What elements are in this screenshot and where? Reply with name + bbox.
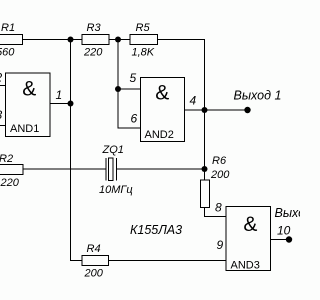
svg-text:R3: R3 [87,22,102,34]
wire R1 to R3 (node B top) [23,39,83,41]
svg-text:6: 6 [131,112,138,126]
svg-text:10: 10 [277,224,291,238]
svg-text:Выход 1: Выход 1 [234,89,282,103]
crystal ZQ1 left plate [105,158,107,181]
wire R6 bottom to AND3 pin 8 [205,208,227,217]
svg-text:R5: R5 [136,22,151,34]
wire R3 to R5 (node C top) [109,39,130,41]
node junction AND1 output [68,101,74,107]
terminal Vyhod 2 [286,236,292,242]
node junction AND2 pin5 [115,86,121,92]
svg-text:220: 220 [0,177,20,189]
wire R5 right to AND2 output node [158,40,205,111]
op-amp gate AND2 box (NAND element DD1.2) [141,78,185,142]
terminal Vyhod 1 [244,107,250,113]
svg-text:200: 200 [210,169,230,181]
svg-text:R6: R6 [212,155,227,167]
node junction crystal-R6 [202,166,208,172]
svg-text:2: 2 [0,71,3,85]
node junction AND2 output [202,107,208,113]
svg-text:Выход 2: Выход 2 [275,206,301,220]
svg-text:К155ЛА3: К155ЛА3 [130,223,182,237]
svg-text:ZQ1: ZQ1 [102,144,124,156]
node junction R1-R3 [68,37,74,43]
svg-text:3: 3 [0,108,3,122]
svg-text:200: 200 [84,268,104,280]
svg-text:9: 9 [217,238,224,252]
op-amp gate AND3 box (NAND element DD1.3) [226,207,271,271]
wire crystal ZQ1 right to R6 node [117,168,205,170]
svg-text:&: & [22,78,36,101]
resistor R4 body [82,256,109,266]
node junction R3-R5 [115,37,121,43]
svg-text:&: & [155,82,169,105]
svg-text:AND2: AND2 [145,129,174,141]
resistor R6 body (vertical) [201,180,210,208]
svg-text:1: 1 [56,88,63,102]
resistor R3 body [82,35,109,45]
wire AND1 pin 3 stub [0,125,6,127]
wire AND2 output pin 4 to Vyhod1 terminal [185,109,248,111]
svg-text:R1: R1 [1,22,15,34]
svg-text:10МГц: 10МГц [99,184,133,196]
crystal ZQ1 body [109,158,114,181]
resistor R2 body [0,165,23,175]
op-amp gate AND1 box (NAND element DD1.1) [6,73,51,137]
svg-text:4: 4 [190,94,197,108]
wire R2 right to crystal ZQ1 left [23,168,106,170]
svg-text:AND3: AND3 [231,260,260,272]
svg-text:8: 8 [215,201,222,215]
resistor R1 body [0,35,23,45]
svg-text:AND1: AND1 [10,123,39,135]
wire R4 right to AND3 pin 9 [109,260,227,262]
wire node C vertical down to AND2 pin 6 [118,40,141,129]
wire node B vertical (x=70.5) down to R4 [71,40,83,261]
wire AND2 output node down to R6 top [204,110,206,180]
svg-text:&: & [243,213,257,236]
svg-text:1,8K: 1,8K [132,47,155,59]
wire node C vertical to AND2 pin 5 [118,88,141,90]
svg-text:220: 220 [83,47,103,59]
svg-text:560: 560 [0,47,15,59]
crystal ZQ1 right plate [116,158,118,181]
svg-text:R4: R4 [87,243,101,255]
svg-text:R2: R2 [0,153,13,165]
wire AND1 output pin 1 to node B vertical [50,103,71,105]
svg-text:5: 5 [130,71,137,85]
wire AND3 output pin 10 to Vyhod2 terminal [271,239,290,241]
wire AND1 pin 2 stub [0,85,6,87]
resistor R5 body [130,35,158,45]
